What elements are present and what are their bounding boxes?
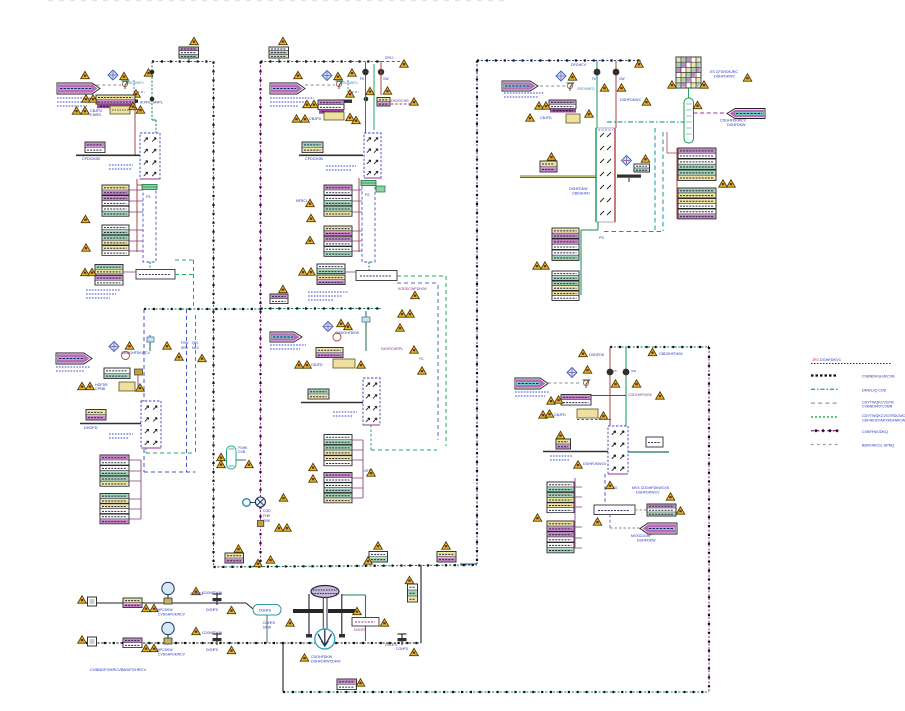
svg-text:DGHFD: DGHFD [354, 628, 367, 632]
svg-text:QPL: QPL [192, 341, 199, 345]
svg-text:DFKJ: DFKJ [385, 56, 394, 60]
svg-text:BDFKWCCL DPNQ: BDFKWCCL DPNQ [862, 444, 894, 448]
svg-text:DGHFDKWC: DGHFDKWC [714, 75, 736, 79]
svg-text:FG: FG [613, 486, 618, 490]
svg-text:CNRG: CNRG [90, 113, 101, 117]
svg-text:KGRDCWFDHGK: KGRDCWFDHGK [398, 287, 428, 291]
svg-text:GHFCDKW: GHFCDKW [155, 608, 173, 612]
svg-text:MFRCL: MFRCL [296, 199, 308, 203]
svg-text:FK: FK [613, 369, 617, 373]
svg-text:CBJFD: CBJFD [554, 413, 566, 417]
svg-text:DGHFDK: DGHFDK [589, 353, 605, 357]
svg-text:CVDGHFDKWCV: CVDGHFDKWCV [158, 653, 186, 657]
svg-text:CBJFD: CBJFD [311, 363, 323, 367]
svg-text:DGHFDKWCV: DGHFDKWCV [583, 462, 607, 466]
svg-text:GRCNWFD: GRCNWFD [340, 81, 358, 85]
svg-text:DGHFDKVC: DGHFDKVC [820, 358, 842, 362]
svg-text:DGHFD: DGHFD [206, 648, 219, 652]
svg-text:DGHFD: DGHFD [206, 608, 219, 612]
svg-text:GW: GW [619, 77, 625, 81]
svg-text:CDYTWQKCVGTR: CDYTWQKCVGTR [862, 400, 894, 404]
svg-text:CFDGHJB: CFDGHJB [305, 157, 323, 161]
svg-text:CGHFD: CGHFD [263, 621, 276, 625]
svg-text:CVDGHFDKWCV: CVDGHFDKWCV [158, 613, 186, 617]
svg-text:CBJFD: CBJFD [309, 117, 321, 121]
svg-text:CDGHFDKW: CDGHFDKW [311, 655, 333, 659]
svg-text:DGHFDKW: DGHFDKW [569, 187, 588, 191]
svg-text:DGHFDKWCV: DGHFDKWCV [636, 491, 660, 495]
svg-text:CBDGHFDKW: CBDGHFDKW [659, 352, 683, 356]
svg-text:CBJFD: CBJFD [540, 116, 552, 120]
svg-text:FS: FS [146, 195, 151, 199]
svg-text:CVBNDFGHJKCVB: CVBNDFGHJKCVB [862, 375, 895, 379]
svg-text:MVX CDGHFDKWCXK: MVX CDGHFDKWCXK [632, 486, 670, 490]
svg-text:CVBNDFGHRCVBNDFGHRCV: CVBNDFGHRCVBNDFGHRCV [90, 667, 147, 672]
svg-text:MVXCDGHF: MVXCDGHF [631, 534, 652, 538]
svg-text:DGHFDKWCDKW: DGHFDKWCDKW [311, 660, 341, 664]
svg-text:GW: GW [631, 369, 636, 373]
svg-text:DGHFD: DGHFD [259, 609, 272, 613]
svg-text:ES CFGHDKJRC: ES CFGHDKJRC [710, 70, 738, 74]
svg-text:GHFCDKW: GHFCDKW [155, 648, 173, 652]
svg-text:CGD: CGD [263, 509, 271, 513]
svg-text:CDGHFDKWCV: CDGHFDKWCV [720, 119, 747, 123]
svg-text:DKXRCHR: DKXRCHR [391, 99, 409, 103]
svg-text:DKXRCHRPL: DKXRCHRPL [381, 347, 403, 351]
svg-text:DGHFDKW: DGHFDKW [637, 539, 656, 543]
svg-text:CGDHHFDKW: CGDHHFDKW [628, 393, 652, 397]
svg-text:DRK: DRK [263, 519, 271, 523]
svg-text:FS: FS [365, 193, 370, 197]
svg-text:JRC: JRC [812, 358, 820, 362]
svg-text:CPNB: CPNB [95, 387, 106, 391]
svg-text:MKC: MKC [192, 346, 200, 350]
svg-text:CFDGHJB: CFDGHJB [82, 157, 100, 161]
svg-text:DGHFDKWC: DGHFDKWC [620, 98, 642, 102]
svg-text:FG: FG [419, 357, 424, 361]
svg-text:PS: PS [599, 236, 604, 240]
svg-text:CVBFHWJDKQ: CVBFHWJDKQ [862, 430, 888, 434]
svg-text:GW: GW [383, 77, 389, 81]
svg-text:CWDGHFDKWCV: CWDGHFDKWCV [121, 351, 150, 355]
svg-text:DFGHCV: DFGHCV [571, 63, 587, 67]
svg-text:DRB: DRB [181, 346, 188, 350]
svg-text:CDFHEICFAPXKDHWCWA: CDFHEICFAPXKDHWCWA [862, 419, 905, 423]
svg-text:CVBNDF: CVBNDF [190, 592, 204, 596]
svg-text:GRCNWFD: GRCNWFD [577, 87, 595, 91]
svg-text:DKWLJQ CVB: DKWLJQ CVB [862, 389, 887, 393]
svg-text:DGHFD: DGHFD [385, 643, 398, 647]
svg-text:DGHFDKW: DGHFDKW [727, 123, 746, 127]
svg-text:CBDGHFD: CBDGHFD [572, 192, 590, 196]
svg-text:FGW: FGW [181, 341, 188, 345]
svg-text:CVB: CVB [238, 450, 246, 454]
svg-text:GRCNWFD: GRCNWFD [126, 81, 144, 85]
svg-text:CWDGHFDKW: CWDGHFDKW [335, 331, 360, 335]
svg-text:CGHFD: CGHFD [396, 647, 409, 651]
svg-text:DHGFD: DHGFD [84, 426, 98, 430]
svg-text:CDYTWQKCVGTRDCWCA: CDYTWQKCVGTRDCWCA [862, 414, 905, 418]
svg-text:FHB: FHB [263, 514, 271, 518]
svg-text:CVBNDFRTCVBN: CVBNDFRTCVBN [862, 405, 893, 409]
